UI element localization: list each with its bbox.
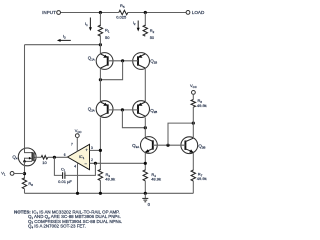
node R3 rail bbox=[99, 192, 102, 195]
resistor R1 50 bbox=[98, 25, 102, 36]
node I3 tee bbox=[99, 43, 102, 46]
node output bbox=[53, 156, 56, 159]
wire Q3b emitter down to R7 bbox=[192, 153, 194, 171]
svg-text:LOAD: LOAD bbox=[192, 10, 205, 15]
svg-text:6: 6 bbox=[64, 153, 66, 157]
svg-text:Q4 IS A 2N7002 SOT-23 FET.: Q4 IS A 2N7002 SOT-23 FET. bbox=[28, 224, 86, 230]
resistor R3 49.9k bbox=[98, 170, 102, 181]
node Q1 bases tee bbox=[121, 59, 124, 62]
wire ground rail bbox=[25, 192, 194, 194]
node pin4 rail bbox=[76, 192, 79, 195]
resistor R5 0.025 bbox=[119, 10, 128, 14]
wire Q3 bases bbox=[153, 144, 186, 146]
svg-text:49.9k: 49.9k bbox=[197, 103, 207, 108]
wire Q4 source lead down bbox=[24, 162, 26, 179]
wire Q2 bases bbox=[108, 109, 138, 111]
wire Q2a collector down to R3 bbox=[99, 117, 101, 170]
svg-text:2: 2 bbox=[91, 158, 93, 162]
wire I3 horizontal bbox=[25, 44, 101, 46]
current arrow I3 bbox=[60, 39, 71, 41]
resistor R8 bbox=[22, 178, 26, 189]
wire pin3 bbox=[90, 149, 101, 151]
node pin3 / R3 bbox=[99, 149, 102, 152]
transistor Q2b (PNP mirrored) bbox=[133, 101, 158, 118]
wire Q1a collector to Q2a emitter bbox=[99, 69, 101, 101]
wire Q3a emitter down through pin2 node to R4 bbox=[144, 152, 146, 170]
transistor Q3b (NPN mirrored) bbox=[181, 137, 206, 154]
wire pin4 to ground rail bbox=[77, 163, 79, 193]
svg-text:49.9k: 49.9k bbox=[151, 176, 161, 181]
wire R2 top lead bbox=[144, 13, 146, 27]
wire Q4 gate to resistor 10 bbox=[36, 156, 41, 158]
svg-text:0.01 µF: 0.01 µF bbox=[58, 179, 72, 184]
wire R7 to rail corner bbox=[192, 181, 194, 193]
wire R8 to ground rail bbox=[24, 189, 26, 194]
wire left drop to Q4 drain bbox=[24, 45, 26, 148]
transistor Q1b (PNP mirrored) bbox=[133, 53, 158, 70]
resistor 10 bbox=[41, 156, 48, 160]
node Q2 bases tee bbox=[121, 108, 124, 111]
node R6 bottom / Q3b collector bbox=[192, 122, 195, 125]
op-amp IC1 bbox=[64, 143, 93, 170]
svg-text:4: 4 bbox=[74, 164, 76, 168]
resistor R2 50 bbox=[143, 25, 147, 36]
wire resistor 10 to op-amp output bbox=[48, 156, 68, 158]
node junction top-right bbox=[144, 11, 147, 14]
node R4 rail bbox=[144, 192, 147, 195]
transistor Q3a (NPN) bbox=[132, 137, 157, 154]
wire R6 bottom to Q3b collector bbox=[192, 107, 194, 137]
LOAD terminal bbox=[186, 11, 190, 15]
wire Q2 base-collector tie bbox=[122, 110, 145, 128]
transistor Q2a (PNP) bbox=[88, 101, 113, 118]
svg-text:3: 3 bbox=[91, 146, 93, 150]
wire VCC to R6 bbox=[192, 94, 194, 99]
current arrow I2 bbox=[137, 21, 139, 29]
node pin2 / Q3a emitter / R4 bbox=[144, 162, 147, 165]
svg-text:−: − bbox=[84, 161, 87, 166]
wire top rail right (R5 to LOAD) bbox=[128, 12, 186, 14]
wire feedback to pin2 riser bbox=[65, 163, 95, 175]
node Q1a collector tie bbox=[99, 78, 102, 81]
wire R4 to rail bbox=[144, 181, 146, 193]
notes text bbox=[14, 209, 122, 229]
svg-text:50: 50 bbox=[105, 35, 110, 40]
node V1 tee bbox=[23, 172, 26, 175]
wire R3 to rail bbox=[99, 181, 101, 194]
resistor R7 49.9k bbox=[191, 170, 195, 181]
transistor Q1a (PNP) bbox=[88, 53, 113, 70]
svg-text:50: 50 bbox=[150, 35, 155, 40]
wire Q1 bases bbox=[108, 60, 138, 62]
svg-text:7: 7 bbox=[71, 143, 73, 147]
wire R1 bottom to Q1a emitter bbox=[99, 35, 101, 53]
node junction top-left bbox=[99, 11, 102, 14]
wire Q2b collector to Q3a collector bbox=[144, 117, 146, 136]
wire Q1b collector to Q2b emitter bbox=[144, 69, 146, 101]
wire top rail left (INPUT to R5) bbox=[61, 12, 119, 14]
resistor R6 49.9k bbox=[191, 100, 195, 108]
MOSFET Q4 bbox=[12, 148, 36, 166]
wire feedback drop bbox=[54, 157, 62, 175]
svg-text:0.025: 0.025 bbox=[116, 14, 127, 19]
resistor R4 49.9k bbox=[143, 170, 147, 181]
node Q3 bases bbox=[166, 144, 169, 147]
capacitor C1 0.01uF bbox=[58, 167, 72, 185]
wire Q3 bases riser to R6 node bbox=[168, 123, 193, 145]
wire pin2 bbox=[90, 162, 146, 164]
svg-text:49.9k: 49.9k bbox=[105, 176, 115, 181]
node Q2b collector tie bbox=[144, 126, 147, 129]
svg-text:49.9k: 49.9k bbox=[197, 176, 207, 181]
wire V1 to tee bbox=[14, 173, 25, 175]
wire pin7 bbox=[76, 138, 78, 152]
svg-text:10: 10 bbox=[42, 160, 47, 165]
ground symbol bbox=[142, 193, 150, 207]
current arrow I1 bbox=[89, 18, 91, 29]
svg-text:INPUT: INPUT bbox=[42, 10, 56, 15]
node feedback riser bbox=[94, 162, 97, 165]
wire R1 top lead bbox=[99, 13, 101, 27]
wire Q1 base-collector tie bbox=[100, 61, 122, 80]
INPUT terminal bbox=[57, 11, 61, 15]
